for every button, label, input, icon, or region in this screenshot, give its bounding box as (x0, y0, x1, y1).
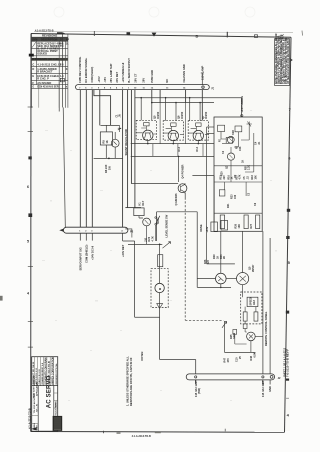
svg-text:1W: 1W (108, 166, 112, 170)
svg-text:+24V UNREG: +24V UNREG (240, 96, 244, 113)
resistor R5 (100, 132, 112, 145)
TB1 end pin (270, 376, 273, 379)
divider (214, 212, 262, 214)
svg-text:B+ SERVO SUPPLY: B+ SERVO SUPPLY (127, 58, 131, 83)
wire (159, 293, 161, 308)
speed control module (241, 292, 262, 324)
svg-text:28V CT: 28V CT (134, 73, 138, 82)
wire (207, 263, 235, 265)
wire (184, 193, 186, 198)
svg-text:115 VAC RET: 115 VAC RET (261, 380, 265, 397)
junction dots (140, 97, 221, 288)
connector P2 (63, 227, 128, 233)
wire (125, 207, 141, 209)
svg-text:RESISTORS ARE 1/4W 5%, CAPS IN: RESISTORS ARE 1/4W 5%, CAPS IN UF (129, 357, 133, 406)
svg-text:2N527: 2N527 (252, 264, 255, 272)
resistor R2 (218, 125, 225, 131)
svg-text:+24V UNREG HI: +24V UNREG HI (121, 62, 125, 82)
transistor Q9 (237, 273, 249, 285)
TB1 pin dot (195, 376, 197, 378)
svg-text:REMOTE CONTROL PANEL: REMOTE CONTROL PANEL (264, 311, 268, 346)
svg-text:+24V RET: +24V RET (121, 244, 125, 257)
transistor Q1 (111, 139, 119, 147)
svg-text:1. UNLESS OTHERWISE SPECIFIED: 1. UNLESS OTHERWISE SPECIFIED ALL (125, 356, 129, 406)
svg-text:+24V: +24V (206, 226, 209, 232)
svg-text:APPD R.F.K 6-12: APPD R.F.K 6-12 (35, 367, 38, 384)
wires left of module (192, 127, 235, 264)
heatsink module A (136, 120, 156, 139)
svg-text:DC ERROR SIGNAL: DC ERROR SIGNAL (84, 57, 88, 82)
svg-text:AC SERVO: AC SERVO (47, 375, 53, 408)
svg-text:R27: R27 (250, 223, 253, 228)
title block small print (32, 356, 58, 430)
svg-text:G: G (32, 87, 34, 89)
resistor R11 (171, 123, 176, 126)
svg-text:R16: R16 (228, 175, 230, 180)
wire (269, 238, 271, 374)
svg-text:100: 100 (234, 194, 237, 199)
wire (245, 307, 256, 312)
svg-text:Q4 2N3638: Q4 2N3638 (175, 193, 178, 206)
wire drops to Q5 (141, 98, 200, 121)
switch S1 (155, 217, 157, 219)
svg-text:2K: 2K (223, 256, 226, 259)
motor assembly (151, 269, 168, 308)
resistor R44 (254, 312, 258, 321)
svg-text:APPLICATION: APPLICATION (35, 382, 38, 396)
arrow motor shaft (157, 304, 163, 309)
svg-text:4.7K: 4.7K (151, 236, 154, 241)
wire (85, 90, 87, 228)
wire (127, 90, 129, 208)
trim corner mark (301, 31, 304, 36)
wire (147, 141, 149, 144)
svg-text:COM (SHLD): COM (SHLD) (90, 67, 94, 83)
wire (159, 90, 161, 103)
svg-text:Q4 POWER: Q4 POWER (181, 164, 185, 178)
svg-text:+24V DC HI: +24V DC HI (90, 246, 94, 260)
svg-text:NC: NC (165, 79, 169, 83)
junction (159, 244, 161, 246)
wire (197, 286, 231, 288)
svg-text:GAIN: GAIN (233, 333, 236, 339)
svg-text:ADJ: ADJ (253, 299, 256, 305)
tick (102, 431, 104, 434)
note block top right (275, 33, 290, 85)
svg-text:AS ISSUED: AS ISSUED (37, 81, 51, 85)
svg-text:GND: GND (268, 386, 272, 392)
resistor R27 (256, 215, 260, 229)
svg-text:RLY: RLY (142, 200, 145, 205)
svg-text:K: K (66, 68, 68, 71)
svg-text:LEVEL SENSE SW: LEVEL SENSE SW (165, 214, 169, 237)
svg-text:(SW): (SW) (197, 388, 201, 394)
wire (224, 321, 226, 352)
svg-text:CR2: CR2 (232, 129, 235, 135)
svg-text:6: 6 (27, 185, 29, 189)
wire to TB right (262, 231, 264, 374)
svg-text:6.8K: 6.8K (253, 352, 256, 357)
wire (220, 231, 222, 273)
transistor Q3 (143, 218, 151, 226)
svg-text:10K: 10K (239, 146, 242, 151)
motor B1 (155, 283, 164, 292)
zone tick arrow top (57, 32, 65, 34)
transistor Q3A (227, 136, 234, 143)
capacitor C5 (219, 190, 225, 196)
wire rail +B (135, 97, 242, 99)
svg-text:+15V: +15V (97, 76, 101, 82)
svg-text:R14: R14 (196, 146, 199, 151)
zone ticks left border (27, 107, 33, 347)
zone tick top (93, 31, 95, 36)
svg-text:24V RET: 24V RET (115, 71, 119, 82)
wire rail (225, 351, 256, 353)
wire (99, 90, 101, 126)
capacitor C8 (221, 220, 228, 230)
transistor Q6 (168, 130, 178, 140)
wire (114, 132, 116, 139)
transistor Q4 (178, 156, 180, 182)
svg-text:R20: R20 (220, 171, 223, 176)
mark (117, 433, 121, 434)
scan smudges (42, 110, 277, 401)
resistor R46 (243, 324, 247, 329)
svg-text:R BRACKET: R BRACKET (37, 70, 53, 74)
connector TB1 bottom (186, 374, 274, 380)
wire (213, 176, 215, 222)
svg-text:SERVO INPUT SIG: SERVO INPUT SIG (78, 247, 82, 270)
stub wire (58, 80, 60, 112)
P1 pin labels (78, 56, 204, 82)
zone marker top (255, 35, 258, 38)
outer trim line top (34, 31, 293, 32)
wire (255, 335, 263, 337)
P2 pins (79, 230, 123, 233)
svg-text:REDWOOD CITY CAL: REDWOOD CITY CAL (55, 362, 58, 384)
wire (207, 133, 214, 135)
svg-text:470: 470 (227, 358, 230, 363)
svg-text:FWD REV CONTROL: FWD REV CONTROL (78, 56, 82, 82)
svg-text:-15V: -15V (103, 77, 107, 83)
svg-text:CHASSIS GND: CHASSIS GND (182, 64, 186, 82)
svg-text:CHKD J.B. 6-10: CHKD J.B. 6-10 (39, 368, 41, 384)
TB1 pin dot (262, 376, 264, 378)
bus wires P1 to P2 (80, 90, 202, 228)
wire (101, 124, 120, 126)
wire (134, 90, 136, 208)
wire lower rail (131, 155, 214, 157)
labels below gain rail (224, 352, 257, 362)
wire (114, 147, 116, 158)
svg-text:R CHG. P: R CHG. P (37, 77, 49, 81)
svg-text:1K: 1K (241, 160, 244, 163)
svg-text:ECN 4216 IN B SER: ECN 4216 IN B SER (37, 86, 59, 89)
wire (136, 126, 156, 134)
zener CR1 (118, 125, 121, 132)
heatsink module C (188, 121, 208, 140)
heatsink module B (163, 121, 183, 140)
microfilm stamp (53, 416, 63, 431)
wire (226, 278, 236, 280)
svg-text:40250: 40250 (204, 111, 208, 119)
notes text (125, 356, 133, 406)
wire (201, 90, 203, 121)
rev divider bar (32, 58, 68, 61)
control module A2 (214, 117, 262, 231)
resistor R26 (244, 215, 248, 229)
transistor Q8 (216, 273, 227, 284)
svg-text:ISSUED: ISSUED (37, 51, 47, 55)
labels below module (213, 254, 226, 259)
wire (105, 125, 107, 131)
svg-text:B REDRAWN (NO CHG): B REDRAWN (NO CHG) (32, 58, 59, 61)
svg-text:2.2K: 2.2K (248, 165, 251, 170)
wire (241, 98, 243, 117)
svg-text:10K: 10K (255, 175, 257, 180)
resistor R12 (196, 123, 201, 126)
svg-text:SYM: SYM (32, 39, 37, 42)
wire (197, 278, 215, 280)
zone marker top (152, 33, 157, 37)
terminal E1 stub (63, 34, 66, 228)
wire motor to TB (160, 308, 196, 374)
table frame (32, 34, 68, 108)
label row resistors (221, 174, 258, 179)
connector P1 end pin (202, 86, 204, 88)
wire ground rail (94, 157, 123, 159)
svg-text:R13: R13 (178, 146, 181, 151)
wire (242, 285, 244, 298)
mechanical dashed link (185, 198, 223, 321)
wire (159, 244, 161, 283)
svg-text:115 VAC HOT: 115 VAC HOT (194, 380, 198, 397)
punch hole (54, 7, 64, 17)
divider (214, 165, 262, 167)
resistor R25 (220, 215, 224, 229)
wire (105, 145, 107, 158)
border frame (31, 34, 291, 433)
arrow (31, 427, 37, 430)
zone marker top (127, 32, 131, 35)
wire (235, 334, 247, 344)
border marker (29, 54, 34, 57)
tick (224, 429, 226, 432)
junction (108, 158, 110, 160)
title block grid (32, 357, 58, 432)
svg-text:5: 5 (27, 240, 29, 244)
svg-text:SHT 1: SHT 1 (56, 400, 58, 407)
punch hole (149, 7, 159, 17)
svg-text:R21: R21 (227, 203, 230, 208)
svg-text:4.1-A-2113-TO-B: 4.1-A-2113-TO-B (27, 408, 31, 429)
title block (27, 356, 62, 431)
wire (172, 141, 174, 144)
wire (250, 341, 252, 353)
svg-text:1K: 1K (105, 140, 109, 143)
svg-text:28V: 28V (142, 78, 146, 83)
svg-text:220: 220 (224, 175, 226, 180)
terminal (241, 115, 243, 117)
svg-text:4.7K: 4.7K (239, 174, 242, 179)
svg-text:JL: JL (66, 42, 69, 45)
zone marks right border (286, 58, 293, 418)
wire (207, 126, 214, 128)
wire (220, 284, 222, 288)
svg-text:UP SEE ECN 4216 FOR REVISION D: UP SEE ECN 4216 FOR REVISION DATA. (287, 38, 290, 84)
svg-text:SHEET 1 OF 1 4.1-A-2113: SHEET 1 OF 1 4.1-A-2113 (284, 347, 287, 377)
wire (151, 90, 153, 103)
zone tick top (226, 32, 228, 38)
TB1 pin labels (194, 380, 272, 397)
capacitor C9 (233, 330, 237, 335)
divider (214, 181, 262, 183)
mark (155, 432, 161, 433)
svg-text:NOTES:: NOTES: (141, 351, 144, 361)
wire (206, 127, 208, 264)
wire (153, 144, 203, 157)
capacitor C7 (211, 222, 218, 232)
resistor R23 (158, 255, 163, 267)
wire (192, 175, 214, 177)
rev row A (32, 42, 36, 48)
svg-text:4.1-A-2113-TO-B: 4.1-A-2113-TO-B (35, 30, 54, 33)
relay K1 (134, 208, 144, 216)
connector P1 pin numbers (79, 86, 186, 89)
wire (185, 90, 187, 103)
potentiometer wiper (163, 242, 171, 249)
svg-text:R5: R5 (102, 140, 106, 144)
svg-text:J1: J1 (211, 86, 215, 90)
svg-text:4.1-B-2113 CHG, CL: 4.1-B-2113 CHG, CL (37, 63, 62, 67)
resistor R43 (243, 312, 247, 321)
small component (125, 229, 132, 238)
transistor Q2 (227, 153, 234, 160)
transistor Q5 (143, 130, 153, 140)
wire rail 2 (152, 102, 214, 104)
wire rail (128, 243, 162, 245)
wire emitter rail (131, 143, 214, 145)
wire (185, 103, 187, 144)
wire (159, 103, 161, 144)
wire (245, 321, 247, 332)
wire (91, 90, 93, 228)
svg-text:DT: DT (60, 39, 64, 42)
resistor R10 (144, 123, 149, 126)
svg-text:R6 220: R6 220 (104, 164, 108, 173)
svg-text:R18: R18 (252, 175, 254, 180)
pot R42 SPEED ADJ (247, 297, 258, 306)
resistor R3 (235, 126, 242, 132)
wire +24V (122, 90, 124, 228)
wire (79, 90, 81, 228)
svg-text:40250: 40250 (156, 111, 160, 119)
svg-text:C: C (32, 63, 34, 67)
left page edge mark (0, 296, 3, 301)
svg-text:AP: AP (66, 39, 70, 42)
svg-text:PWR GND: PWR GND (150, 70, 154, 83)
P2 pin labels (78, 244, 125, 270)
svg-text:DESCRIPTION: DESCRIPTION (41, 39, 58, 42)
svg-text:4.1-A-2113-TO-B: 4.1-A-2113-TO-B (132, 435, 151, 438)
transistor Q10 (247, 332, 256, 341)
svg-text:REVISIONS: REVISIONS (42, 34, 57, 38)
amplifier box outline (157, 212, 198, 288)
svg-text:NEXT ASSY USED ON: NEXT ASSY USED ON (33, 376, 36, 398)
svg-text:D: D (32, 67, 34, 71)
svg-text:E: E (32, 74, 34, 78)
stub above pin 14 (201, 73, 204, 85)
svg-text:10K: 10K (238, 224, 241, 229)
wire (163, 126, 183, 134)
right edge vertical drawing number text (284, 347, 290, 399)
terminal E1 box (60, 78, 64, 82)
svg-text:.XX +-.01: .XX +-.01 (37, 403, 39, 413)
wire (188, 126, 208, 134)
wire (197, 141, 199, 144)
svg-text:SHUNT REGULATOR: SHUNT REGULATOR (124, 129, 128, 155)
svg-text:40250: 40250 (180, 111, 184, 119)
wire gate (131, 183, 178, 185)
wire (94, 90, 111, 126)
svg-text:28V LAMP SUP: 28V LAMP SUP (109, 63, 113, 82)
svg-text:COM (SHIELD): COM (SHIELD) (84, 245, 88, 263)
P2 left arrow (59, 229, 63, 232)
wire (130, 90, 132, 184)
revision table (29, 30, 70, 108)
svg-text:DRIVE: DRIVE (201, 224, 203, 232)
diode CR3 (247, 122, 252, 127)
transistor Q7 (193, 130, 203, 140)
TB1 stubs and labels (196, 380, 270, 385)
wire (139, 216, 147, 245)
svg-text:4: 4 (27, 291, 29, 295)
wires inside module (221, 127, 254, 197)
wire (242, 231, 244, 272)
P2 pin stubs (80, 233, 92, 240)
labels inside module (219, 129, 261, 208)
connector P1 (76, 85, 210, 90)
potentiometer wiper R45 (222, 321, 227, 327)
wire P2 to motor lead (123, 233, 160, 317)
svg-text:D: D (196, 33, 199, 38)
bottom edge marks (0, 296, 225, 438)
punch hole (245, 7, 255, 17)
capacitor C2 (226, 138, 232, 144)
